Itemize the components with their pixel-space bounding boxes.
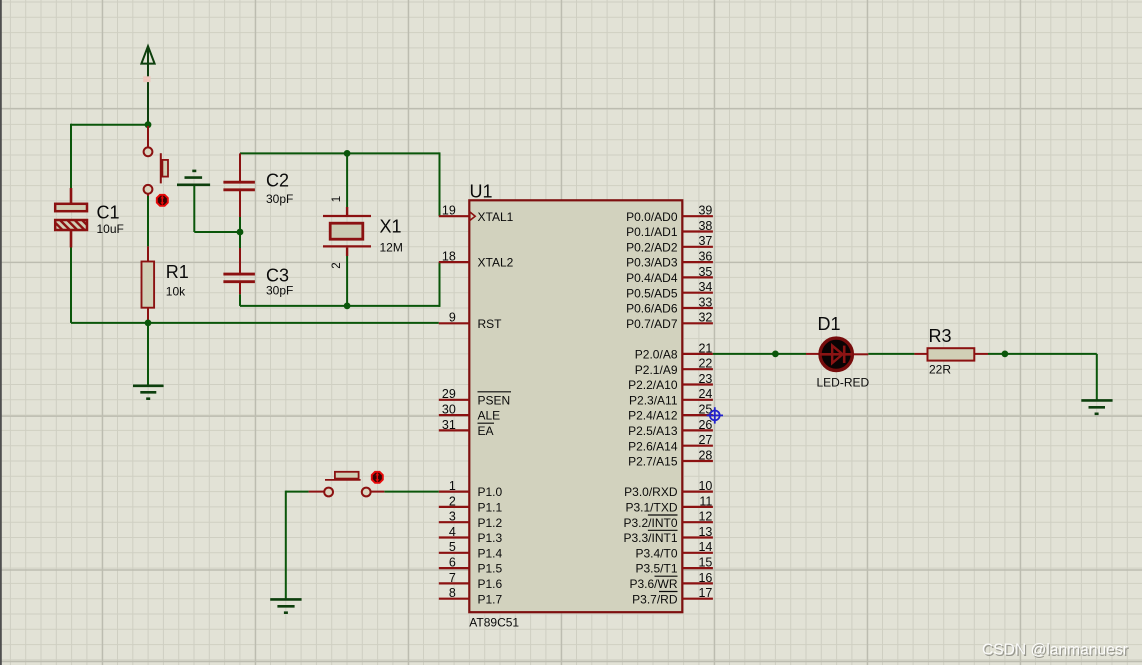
svg-text:P0.4/AD4: P0.4/AD4 (626, 271, 678, 285)
svg-text:C2: C2 (266, 171, 289, 191)
svg-text:P0.0/AD0: P0.0/AD0 (626, 210, 678, 224)
svg-text:P3.7/RD: P3.7/RD (632, 592, 678, 606)
svg-text:28: 28 (698, 448, 712, 462)
svg-text:22R: 22R (929, 362, 951, 376)
svg-text:R3: R3 (929, 326, 952, 346)
svg-text:7: 7 (449, 571, 456, 585)
svg-text:10uF: 10uF (97, 222, 124, 236)
svg-text:P3.5/T1: P3.5/T1 (635, 562, 677, 576)
svg-text:12: 12 (698, 510, 712, 524)
svg-text:P1.3: P1.3 (478, 531, 503, 545)
svg-text:36: 36 (698, 250, 712, 264)
svg-text:13: 13 (698, 525, 712, 539)
svg-text:D1: D1 (818, 314, 841, 334)
svg-text:1: 1 (449, 479, 456, 493)
svg-text:P2.7/A15: P2.7/A15 (628, 455, 678, 469)
svg-text:RST: RST (478, 317, 503, 331)
svg-text:27: 27 (698, 433, 712, 447)
svg-text:P1.2: P1.2 (478, 516, 503, 530)
svg-text:P0.1/AD1: P0.1/AD1 (626, 225, 678, 239)
svg-text:P2.1/A9: P2.1/A9 (635, 363, 678, 377)
svg-text:10: 10 (698, 479, 712, 493)
svg-text:38: 38 (698, 219, 712, 233)
svg-text:2: 2 (331, 262, 343, 268)
svg-text:14: 14 (698, 540, 712, 554)
svg-text:P3.6/WR: P3.6/WR (629, 577, 677, 591)
svg-text:37: 37 (698, 234, 712, 248)
svg-text:P1.7: P1.7 (478, 592, 503, 606)
svg-text:R1: R1 (166, 262, 189, 282)
svg-text:P1.1: P1.1 (478, 501, 503, 515)
svg-text:30pF: 30pF (266, 192, 293, 206)
svg-text:AT89C51: AT89C51 (469, 616, 519, 630)
svg-text:P3.3/INT1: P3.3/INT1 (623, 531, 677, 545)
svg-text:32: 32 (698, 311, 712, 325)
svg-text:22: 22 (698, 357, 712, 371)
svg-text:P0.2/AD2: P0.2/AD2 (626, 240, 678, 254)
svg-text:26: 26 (698, 418, 712, 432)
svg-text:P0.3/AD3: P0.3/AD3 (626, 256, 678, 270)
svg-text:24: 24 (698, 387, 712, 401)
svg-text:PSEN: PSEN (478, 393, 511, 407)
svg-text:31: 31 (442, 418, 456, 432)
svg-text:35: 35 (698, 265, 712, 279)
svg-text:2: 2 (449, 494, 456, 508)
svg-text:C1: C1 (97, 203, 120, 223)
svg-text:ALE: ALE (478, 409, 501, 423)
svg-text:5: 5 (449, 540, 456, 554)
svg-text:11: 11 (699, 494, 712, 508)
svg-text:EA: EA (478, 424, 494, 438)
svg-text:P1.5: P1.5 (478, 562, 503, 576)
svg-text:8: 8 (449, 586, 456, 600)
svg-text:U1: U1 (470, 181, 493, 201)
svg-text:P2.6/A14: P2.6/A14 (628, 439, 678, 453)
svg-text:9: 9 (449, 311, 456, 325)
svg-text:4: 4 (449, 525, 456, 539)
svg-text:3: 3 (449, 510, 456, 524)
svg-text:P2.3/A11: P2.3/A11 (629, 393, 678, 407)
svg-text:P3.0/RXD: P3.0/RXD (624, 485, 678, 499)
svg-text:P2.2/A10: P2.2/A10 (628, 378, 678, 392)
svg-text:30: 30 (442, 403, 456, 417)
svg-text:6: 6 (449, 556, 456, 570)
svg-text:18: 18 (442, 250, 456, 264)
svg-text:P2.4/A12: P2.4/A12 (628, 409, 678, 423)
svg-text:21: 21 (698, 341, 712, 355)
svg-text:23: 23 (698, 372, 712, 386)
svg-text:17: 17 (698, 586, 712, 600)
svg-text:P0.7/AD7: P0.7/AD7 (626, 317, 678, 331)
svg-text:XTAL1: XTAL1 (478, 210, 514, 224)
svg-text:29: 29 (442, 387, 456, 401)
svg-text:LED-RED: LED-RED (817, 376, 870, 390)
svg-text:19: 19 (442, 204, 456, 218)
svg-text:34: 34 (698, 280, 712, 294)
svg-text:C3: C3 (266, 266, 289, 286)
svg-text:P1.4: P1.4 (478, 546, 503, 560)
svg-text:X1: X1 (380, 217, 402, 237)
svg-text:1: 1 (331, 196, 343, 202)
svg-text:P3.1/TXD: P3.1/TXD (625, 501, 677, 515)
svg-text:33: 33 (698, 295, 712, 309)
svg-text:P0.5/AD5: P0.5/AD5 (626, 286, 678, 300)
svg-text:P1.6: P1.6 (478, 577, 503, 591)
svg-text:16: 16 (698, 571, 712, 585)
svg-text:12M: 12M (380, 241, 403, 255)
svg-text:P3.2/INT0: P3.2/INT0 (623, 516, 677, 530)
svg-text:15: 15 (698, 556, 712, 570)
svg-text:P0.6/AD6: P0.6/AD6 (626, 302, 678, 316)
svg-text:P1.0: P1.0 (478, 485, 503, 499)
svg-text:XTAL2: XTAL2 (478, 256, 514, 270)
svg-text:30pF: 30pF (266, 284, 293, 298)
svg-text:39: 39 (698, 204, 712, 218)
svg-text:P3.4/T0: P3.4/T0 (635, 546, 677, 560)
svg-text:CSDN @lanmanuesr: CSDN @lanmanuesr (982, 642, 1128, 659)
svg-text:P2.0/A8: P2.0/A8 (635, 348, 678, 362)
svg-text:P2.5/A13: P2.5/A13 (628, 424, 678, 438)
svg-text:10k: 10k (166, 285, 186, 299)
